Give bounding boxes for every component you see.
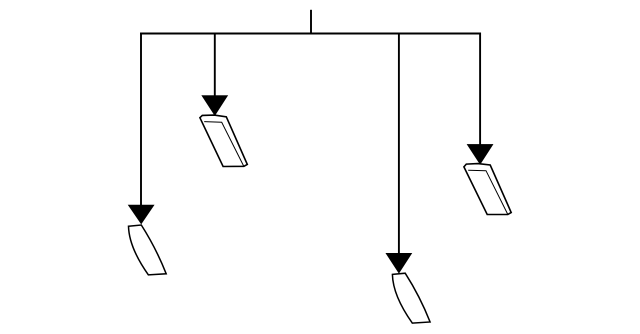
- wire hanger stub: [310, 10, 312, 35]
- wire drop 3: [398, 33, 400, 267]
- wire drop 1: [140, 33, 142, 218]
- wire drop 2: [214, 33, 216, 110]
- card 1: [129, 225, 167, 275]
- card 3: [392, 273, 430, 323]
- arrow 3: [386, 253, 412, 273]
- arrow 2: [202, 96, 228, 116]
- slab 4: [464, 164, 511, 215]
- wire drop 4: [479, 33, 481, 158]
- wire crossbar: [140, 33, 481, 35]
- arrow 4: [467, 144, 493, 164]
- arrow 1: [128, 205, 154, 224]
- slab 2: [200, 115, 247, 166]
